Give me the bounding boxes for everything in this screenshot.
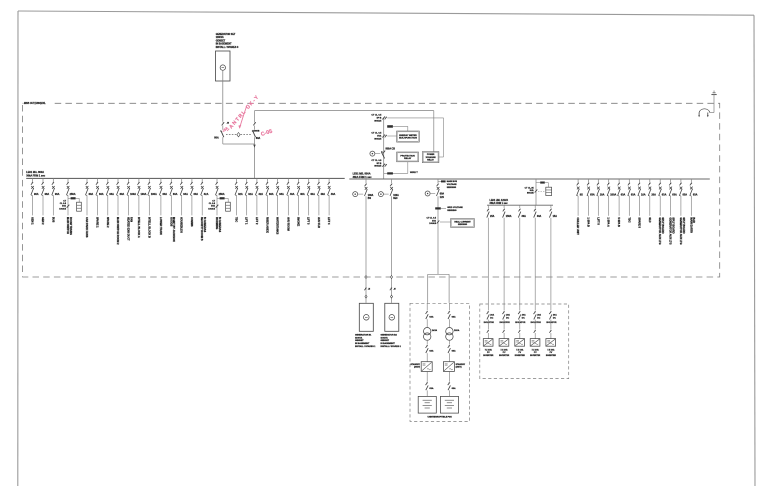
ATS output tie wire (223, 143, 255, 145)
svg-text:20A: 20A (537, 314, 541, 317)
breaker MA10 100A + feeder label (138, 178, 140, 182)
breaker MB6 63A + feeder label (628, 179, 630, 183)
svg-text:1 SPA B: 1 SPA B (587, 217, 590, 227)
bus HM (487, 204, 553, 206)
breaker MA12 63A + feeder label (160, 178, 162, 182)
svg-text:2kVA: 2kVA (432, 329, 438, 332)
svg-text:VOLTAGE: VOLTAGE (447, 183, 457, 186)
breaker MA19 32A + feeder label (246, 178, 248, 182)
svg-text:INTELL BLOCK B: INTELL BLOCK B (147, 217, 150, 238)
svg-text:100A/5: 100A/5 (208, 207, 216, 210)
breaker MB10 63A + feeder label (670, 179, 672, 183)
breaker MA26 40A + feeder label (318, 178, 320, 182)
svg-text:96A: 96A (45, 193, 50, 196)
svg-text:RELAY: RELAY (404, 157, 412, 160)
breaker MB2 63A + feeder label (588, 179, 590, 183)
breaker gen feeder 2 (391, 179, 393, 183)
PSU feeder tee (428, 273, 449, 275)
breaker MB5 63A + feeder label (618, 179, 620, 183)
svg-text:INSTALL / SPARES 3: INSTALL / SPARES 3 (216, 46, 239, 49)
svg-text:12S: 12S (440, 197, 445, 199)
breaker MA11 100A + feeder label (148, 178, 150, 182)
svg-text:30A: 30A (537, 215, 542, 218)
energy meter box (397, 131, 420, 142)
breaker MA22 63A + feeder label (277, 178, 279, 182)
breaker MB1 9S + feeder label (577, 179, 579, 183)
svg-text:AHU FLR: AHU FLR (317, 217, 320, 228)
PSU chain 2 battery breaker (448, 371, 450, 381)
wire protection relay to CT3 (407, 162, 409, 174)
svg-text:100A: 100A (393, 194, 399, 197)
PSU chain 2 input breaker (448, 303, 450, 310)
breaker MA13 63A + feeder label (170, 178, 172, 182)
svg-text:SPARE 1: SPARE 1 (95, 217, 98, 228)
breaker PSU feeder (437, 179, 439, 183)
transformer T1 2kVA (424, 328, 431, 335)
svg-text:WARMING: WARMING (215, 217, 218, 229)
svg-text:ISOLATOR: ISOLATOR (546, 321, 557, 324)
svg-text:SLD: SLD (648, 217, 651, 222)
svg-text:CT CL 0.5: CT CL 0.5 (426, 218, 436, 220)
wire gen feeder 2 (391, 196, 393, 303)
protection relay box (397, 152, 419, 162)
svg-text:80A: 80A (256, 137, 261, 140)
svg-text:36kA FRM 1 sec: 36kA FRM 1 sec (26, 174, 46, 177)
ATS breaker CB-G (generator side) (222, 122, 225, 125)
charger/inverter 2 (443, 362, 454, 372)
svg-text:63A: 63A (452, 316, 456, 319)
breaker MA27 40A + feeder label (328, 178, 330, 182)
svg-text:GENERATOR AUX LTG: GENERATOR AUX LTG (679, 217, 682, 244)
svg-text:250A: 250A (219, 193, 225, 196)
svg-text:63A: 63A (163, 193, 168, 196)
svg-text:ISOLATOR: ISOLATOR (500, 321, 511, 324)
breaker gen feeder 1 (365, 179, 367, 183)
svg-text:SECURITY ROOM B: SECURITY ROOM B (200, 217, 203, 241)
generator G1 (216, 51, 231, 81)
svg-text:ISOLATOR: ISOLATOR (515, 321, 526, 324)
svg-text:800A/5: 800A/5 (374, 165, 382, 168)
bus MB (349, 178, 710, 180)
svg-text:20A: 20A (651, 193, 656, 196)
svg-text:7.5 kVA: 7.5 kVA (485, 348, 493, 351)
svg-text:HOUSEBLDG: HOUSEBLDG (180, 217, 183, 233)
breaker MA18 32A + feeder label (236, 178, 238, 182)
svg-text:96A: 96A (55, 193, 60, 196)
svg-text:63A: 63A (429, 350, 433, 353)
svg-text:DC: DC (506, 317, 510, 319)
meter feeder wire (535, 179, 537, 205)
svg-text:AHU ROOM: AHU ROOM (286, 217, 289, 231)
svg-text:36kA FRM 1 sec: 36kA FRM 1 sec (490, 202, 509, 205)
svg-text:SENSING: SENSING (447, 210, 457, 212)
svg-text:CL 0.5: CL 0.5 (60, 203, 67, 205)
svg-text:32A: 32A (204, 193, 209, 196)
svg-text:BS: BS (368, 198, 372, 200)
svg-text:63A: 63A (109, 193, 114, 196)
svg-text:C-05: C-05 (260, 129, 273, 138)
svg-text:63A: 63A (429, 316, 433, 319)
breaker HM3 30A + feeder (519, 205, 521, 208)
svg-text:WATERTANKS: WATERTANKS (276, 217, 279, 235)
PSU chain 2 mid breaker (448, 340, 450, 344)
svg-text:CAR PARK FANS: CAR PARK FANS (85, 217, 88, 238)
svg-text:20A: 20A (490, 314, 494, 317)
svg-text:GENERATOR SET: GENERATOR SET (216, 33, 236, 36)
svg-text:IN BASEMENT: IN BASEMENT (355, 342, 370, 345)
standby PSU enclosure (dashed) (410, 303, 469, 421)
svg-text:100A/5: 100A/5 (429, 222, 437, 225)
breaker MA17 250A + feeder label (216, 178, 218, 182)
svg-text:SMOKE: SMOKE (297, 217, 300, 227)
svg-text:LIFT 4: LIFT 4 (327, 217, 330, 225)
svg-text:MAIN SWITCH ROOM 2: MAIN SWITCH ROOM 2 (116, 217, 119, 245)
meter M3 assembly (536, 182, 540, 184)
svg-text:MULTIFUNCTION: MULTIFUNCTION (399, 138, 417, 140)
wire PSU feeder (437, 196, 439, 274)
svg-text:IN BASEMENT: IN BASEMENT (381, 342, 396, 345)
svg-text:63A: 63A (279, 193, 284, 196)
bus MA (26, 177, 345, 179)
svg-text:5VA: 5VA (432, 219, 436, 222)
svg-text:63A: 63A (183, 193, 188, 196)
svg-text:PV: PV (503, 352, 506, 354)
svg-text:DC: DC (553, 317, 557, 319)
svg-text:PROTECTION: PROTECTION (400, 155, 415, 157)
svg-text:100A: 100A (610, 193, 616, 196)
svg-text:110kVA: 110kVA (381, 336, 389, 339)
breaker MA4 250A + feeder label (67, 178, 69, 182)
svg-text:STANDBY: STANDBY (456, 363, 466, 366)
svg-text:GEN 2: GEN 2 (41, 217, 44, 225)
sheet border (18, 11, 754, 15)
svg-text:SPLY BOARD: SPLY BOARD (661, 217, 664, 233)
svg-text:6E3: 6E3 (393, 198, 398, 200)
svg-text:7.5 kVA: 7.5 kVA (547, 348, 555, 351)
breaker MB11 63A + feeder label (680, 179, 682, 183)
breaker MB9 63A + feeder label (659, 179, 661, 183)
svg-text:GENSET: GENSET (216, 40, 226, 42)
svg-text:63A: 63A (683, 193, 688, 196)
svg-text:SENSING: SENSING (447, 187, 457, 189)
svg-text:CT CL.05: CT CL.05 (525, 187, 535, 189)
svg-text:B CAMERAS: B CAMERAS (218, 217, 221, 232)
indicator lamp gen feeder 1 (353, 192, 358, 197)
svg-text:2kVA: 2kVA (454, 329, 460, 332)
svg-text:RELAY: RELAY (427, 158, 434, 161)
svg-text:63A: 63A (429, 387, 433, 390)
svg-text:96A: 96A (34, 193, 39, 196)
svg-text:PV: PV (550, 352, 553, 354)
breaker MB8 20A + feeder label (649, 179, 651, 183)
breaker MA21 63A + feeder label (266, 178, 268, 182)
svg-text:9S: 9S (580, 193, 583, 196)
svg-text:25A: 25A (490, 215, 495, 218)
svg-text:LIFT 2: LIFT 2 (255, 217, 258, 225)
svg-text:32A: 32A (238, 193, 243, 196)
svg-text:ISOLATOR: ISOLATOR (484, 321, 495, 324)
svg-text:GEN 1: GEN 1 (30, 217, 33, 225)
svg-text:CT CL 0.5: CT CL 0.5 (371, 133, 382, 135)
svg-text:CT CL 0.5: CT CL 0.5 (371, 115, 382, 117)
svg-text:20A: 20A (506, 314, 510, 317)
PSU chain 1 input breaker (426, 303, 428, 310)
svg-text:GENERATOR B2: GENERATOR B2 (381, 334, 398, 337)
breaker MA6 63A + feeder label (96, 178, 98, 182)
svg-text:63A: 63A (269, 193, 274, 196)
charger/inverter 1 (421, 362, 432, 372)
indicator lamp PSU feeder (425, 191, 430, 196)
svg-text:~ANTRL UK-Y: ~ANTRL UK-Y (225, 94, 260, 134)
real current sensing box (451, 219, 475, 228)
breaker MA25 40A + feeder label (308, 178, 310, 182)
battery bank 2 (440, 396, 458, 413)
battery bank 1 (418, 396, 436, 413)
svg-text:7.5 kVA: 7.5 kVA (501, 348, 509, 351)
svg-text:40A: 40A (310, 193, 315, 196)
meter M2 on MA17 (217, 197, 220, 199)
svg-text:63A: 63A (452, 350, 456, 353)
PSU chain 1 battery breaker (426, 371, 428, 381)
breaker MA8 63A + feeder label (117, 178, 119, 182)
transformer T2 2kVA (446, 328, 453, 335)
svg-text:GENSET: GENSET (355, 340, 364, 342)
svg-text:INVERTER: INVERTER (499, 355, 510, 357)
svg-text:100A: 100A (130, 193, 136, 196)
wire gen feeder 1 (365, 196, 367, 303)
svg-text:40A: 40A (300, 193, 305, 196)
svg-text:MSB CUT(X460)XXL: MSB CUT(X460)XXL (24, 102, 46, 105)
wire CB-U to relay loop (254, 111, 256, 122)
svg-text:1 SPA A: 1 SPA A (607, 217, 610, 227)
svg-text:30A: 30A (522, 215, 527, 218)
svg-text:SENSING: SENSING (458, 224, 468, 226)
breaker MA3 96A + feeder label (52, 178, 54, 182)
svg-text:63A: 63A (590, 193, 595, 196)
svg-text:CHILLER UNIT: CHILLER UNIT (576, 217, 579, 235)
svg-text:B CAMERAS: B CAMERAS (203, 217, 206, 232)
removable link (699, 109, 710, 113)
svg-text:PV: PV (518, 352, 521, 354)
svg-text:63A: 63A (89, 193, 94, 196)
PSU chain 1 mid breaker (426, 340, 428, 344)
svg-text:WIRE T: WIRE T (410, 172, 418, 174)
breaker MA1 96A + feeder label (31, 178, 33, 182)
svg-text:SPLY BOARD: SPLY BOARD (682, 217, 685, 233)
svg-text:5VA: 5VA (62, 205, 66, 208)
svg-text:7.5 kVA: 7.5 kVA (516, 348, 524, 351)
svg-text:-M: -M (368, 288, 371, 290)
svg-text:800A CB: 800A CB (386, 147, 396, 150)
svg-text:MGMT BY JACKSON: MGMT BY JACKSON (172, 217, 175, 242)
svg-text:LIFT 3: LIFT 3 (307, 217, 310, 225)
power xchange relay box (422, 152, 439, 163)
svg-text:HEATED EXH DUCT: HEATED EXH DUCT (127, 217, 130, 241)
svg-text:32A: 32A (248, 193, 253, 196)
svg-text:100A: 100A (368, 194, 374, 197)
svg-text:DC: DC (537, 317, 541, 319)
svg-text:PV: PV (487, 352, 490, 354)
svg-text:7.5 kVA: 7.5 kVA (532, 348, 540, 351)
svg-text:INTELL BLOCK A: INTELL BLOCK A (137, 217, 140, 238)
incomer riser wire (383, 117, 385, 178)
svg-text:ENERGY METER: ENERGY METER (399, 135, 417, 137)
PV chain 1 (isolator + inverter) (487, 311, 489, 314)
breaker MA9 100A + feeder label (128, 178, 130, 182)
breaker MA20 32A + feeder label (256, 178, 258, 182)
breaker MB12 63A + feeder label (690, 179, 692, 183)
PV chain 4 (isolator + inverter) (534, 311, 536, 314)
svg-text:20A: 20A (600, 193, 605, 196)
PV enclosure (dashed) (480, 304, 569, 379)
PV chain 3 (isolator + inverter) (518, 311, 520, 314)
svg-text:5P B: 5P B (377, 118, 382, 120)
svg-text:20A: 20A (553, 314, 557, 317)
svg-text:SPLY BOARD: SPLY BOARD (672, 217, 675, 233)
PV chain 2 (isolator + inverter) (502, 311, 504, 314)
svg-text:MAIN EARTH: MAIN EARTH (689, 217, 692, 233)
svg-text:INSTALL / SPARES 1: INSTALL / SPARES 1 (381, 345, 402, 348)
indicator lamp main CB (370, 151, 375, 156)
svg-text:5 SPA B: 5 SPA B (617, 217, 620, 227)
svg-text:COMMS: COMMS (190, 217, 193, 227)
meter M1 on MA4 (68, 197, 71, 199)
svg-text:5VA: 5VA (530, 189, 534, 192)
svg-text:5P B: 5P B (377, 163, 382, 165)
svg-text:800A/5: 800A/5 (374, 119, 382, 122)
svg-text:SPARE 5: SPARE 5 (637, 217, 640, 228)
generator B2 box (385, 303, 399, 331)
svg-text:SPARE 2: SPARE 2 (106, 217, 109, 228)
svg-text:63A: 63A (120, 193, 125, 196)
svg-text:32A: 32A (259, 193, 264, 196)
generator B1 box (359, 303, 373, 331)
main bus voltage sensing tap (438, 180, 441, 182)
svg-text:60A: 60A (440, 193, 445, 196)
svg-text:250A: 250A (70, 193, 76, 196)
svg-text:GENERATOR B1: GENERATOR B1 (355, 334, 372, 337)
PV chain 5 (isolator + inverter) (549, 311, 551, 314)
wire earth to link (713, 95, 715, 113)
svg-text:TBC: TBC (627, 217, 630, 222)
breaker MB3 20A + feeder label (597, 179, 599, 183)
earth electrode (711, 94, 716, 96)
svg-text:GOODS: GOODS (169, 217, 172, 227)
svg-text:INVERTER: INVERTER (483, 355, 494, 357)
svg-text:100A/5: 100A/5 (59, 207, 67, 210)
breaker HM5 15A + feeder (550, 205, 552, 208)
breaker HM4 30A + feeder (534, 205, 536, 208)
svg-text:PV: PV (534, 352, 537, 354)
ATS breaker CB-U (mains side) (253, 122, 256, 125)
svg-text:INVERTER: INVERTER (515, 355, 526, 357)
svg-text:63A: 63A (173, 193, 178, 196)
svg-text:CT: CT (63, 200, 67, 202)
svg-text:RISER ASIDE: RISER ASIDE (265, 217, 268, 233)
svg-text:REAL CURRENT: REAL CURRENT (454, 220, 471, 223)
svg-text:INVERTER: INVERTER (530, 355, 541, 357)
wire CT1 to power xchange relay (387, 117, 443, 119)
svg-text:100A: 100A (141, 193, 147, 196)
svg-text:DC: DC (490, 317, 494, 319)
breaker HM2 150A + feeder (503, 205, 505, 208)
svg-text:CT CL 0.5: CT CL 0.5 (371, 160, 382, 162)
svg-text:16A: 16A (641, 193, 646, 196)
MSB enclosure (dashed) (23, 103, 720, 277)
breaker MA5 63A + feeder label (86, 178, 88, 182)
svg-text:40A: 40A (290, 193, 295, 196)
breaker HM1 25A + feeder (487, 205, 489, 208)
svg-text:LOWER TRAIN: LOWER TRAIN (159, 217, 162, 235)
svg-text:MAIN SWITCH: MAIN SWITCH (66, 217, 69, 234)
svg-text:UNINTERRUPTIBLE PSU: UNINTERRUPTIBLE PSU (427, 417, 452, 419)
breaker MA23 40A + feeder label (287, 178, 289, 182)
svg-text:63A: 63A (99, 193, 104, 196)
svg-text:CL 0.5: CL 0.5 (209, 203, 216, 205)
svg-text:40A: 40A (331, 193, 336, 196)
svg-text:63A: 63A (662, 193, 667, 196)
breaker MA15 63A + feeder label (191, 178, 193, 182)
svg-text:15A: 15A (553, 215, 558, 218)
svg-text:FAN: FAN (129, 217, 132, 222)
svg-text:ROOM TRAINS: ROOM TRAINS (69, 217, 72, 235)
svg-text:63A: 63A (672, 193, 677, 196)
svg-text:LIFT 5: LIFT 5 (596, 217, 599, 225)
svg-text:-M: -M (393, 288, 396, 290)
breaker MA2 96A + feeder label (42, 178, 44, 182)
breaker MA14 63A + feeder label (181, 178, 183, 182)
svg-text:100A: 100A (151, 193, 157, 196)
svg-text:150A: 150A (506, 215, 512, 218)
svg-text:63A: 63A (452, 387, 456, 390)
indicator lamp gen feeder 2 (378, 192, 383, 197)
breaker MA24 40A + feeder label (298, 178, 300, 182)
svg-text:INSTALL / SPARES 1: INSTALL / SPARES 1 (355, 345, 376, 348)
breaker MA16 32A + feeder label (201, 178, 203, 182)
svg-text:GRID VOLTAGE: GRID VOLTAGE (447, 206, 463, 209)
svg-text:63A: 63A (631, 193, 636, 196)
svg-text:TBC: TBC (235, 217, 238, 222)
svg-text:GENERATOR AUX LTG: GENERATOR AUX LTG (669, 217, 672, 244)
svg-text:800A/5: 800A/5 (527, 192, 535, 195)
svg-text:80A: 80A (214, 137, 219, 140)
wire generator to ATS (222, 70, 224, 122)
svg-text:20A: 20A (522, 314, 526, 317)
svg-text:(26kV): (26kV) (456, 367, 462, 369)
breaker MA7 63A + feeder label (107, 178, 109, 182)
svg-text:IN BASEMENT: IN BASEMENT (216, 43, 232, 46)
svg-text:800A/5: 800A/5 (374, 137, 382, 140)
svg-text:BAR: BAR (692, 217, 695, 223)
svg-text:40A: 40A (321, 193, 326, 196)
svg-text:ISOLATOR: ISOLATOR (531, 321, 542, 324)
svg-text:DC: DC (522, 317, 526, 319)
breaker MB4 100A + feeder label (608, 179, 610, 183)
svg-text:63A: 63A (194, 193, 199, 196)
grid voltage sensing tap (435, 207, 441, 209)
svg-text:(26kV): (26kV) (414, 367, 420, 369)
svg-text:110kVA: 110kVA (355, 336, 363, 339)
svg-text:LIFT 1: LIFT 1 (245, 217, 248, 225)
svg-text:INVERTER: INVERTER (546, 355, 557, 357)
ATS mechanical interlock (226, 134, 251, 136)
svg-text:GENERATOR AUX LTG: GENERATOR AUX LTG (658, 217, 661, 244)
svg-text:5VA: 5VA (377, 135, 382, 138)
svg-text:CT: CT (212, 200, 216, 202)
svg-text:63A: 63A (621, 193, 626, 196)
svg-text:GENSET: GENSET (381, 340, 390, 342)
svg-text:5VA: 5VA (211, 205, 215, 208)
